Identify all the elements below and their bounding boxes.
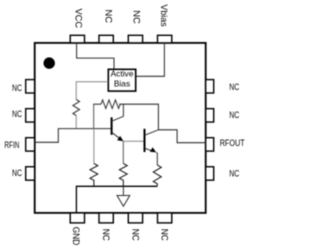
transistor Q1 emitter arrow	[117, 136, 123, 141]
svg-text:NC: NC	[229, 82, 239, 92]
svg-text:Bias: Bias	[114, 79, 130, 89]
transistor Q1 collector	[112, 104, 124, 121]
wire Q1 emitter down to R2 (gray)	[122, 141, 124, 163]
wire feedback left lead	[93, 103, 101, 105]
svg-text:NC: NC	[130, 229, 140, 241]
pin Vbias (top 4)	[158, 35, 172, 43]
pin NC (right 1)	[206, 80, 214, 93]
ground symbol stem	[122, 186, 124, 195]
pin NC (bottom 4)	[158, 213, 172, 223]
pin NC (right 2)	[206, 109, 214, 122]
svg-text:RFOUT: RFOUT	[220, 138, 245, 148]
wire Q1 emitter to Q2 base (gray)	[124, 140, 145, 142]
transistor Q2 emitter	[145, 148, 154, 151]
resistor R3 (Q2 emitter)	[153, 165, 161, 186]
wire base bleed (gray, base line down to R1)	[93, 129, 95, 164]
svg-text:Active: Active	[111, 68, 134, 78]
transistor Q1 emitter	[112, 132, 121, 139]
pin VCC (top 1)	[70, 35, 84, 43]
pin NC (bottom 2)	[99, 213, 113, 223]
pin GND (bottom 1)	[70, 213, 84, 223]
pin NC (left 4)	[26, 167, 35, 180]
ground symbol	[117, 196, 130, 207]
svg-text:NC: NC	[159, 229, 169, 241]
transistor Q2 collector	[145, 130, 159, 135]
resistor Rbias (vertical zigzag)	[73, 100, 80, 116]
pin RFIN (left 3)	[26, 138, 35, 151]
transistor Q2 emitter arrow	[150, 147, 156, 152]
wire Active Bias output (gray)	[76, 82, 108, 100]
wire ground bus	[76, 186, 157, 213]
wire Rbias to base line (gray)	[75, 116, 77, 129]
svg-text:NC: NC	[132, 10, 142, 24]
svg-text:NC: NC	[229, 169, 239, 179]
transistor Q1 base bar	[111, 117, 113, 135]
resistor R2 (Q1 emitter)	[119, 164, 127, 187]
op-amp / active bias box U1	[108, 69, 135, 91]
svg-text:NC: NC	[12, 83, 22, 93]
svg-text:RFIN: RFIN	[4, 140, 19, 150]
wire collector rail	[119, 104, 158, 130]
pin NC (left 2)	[26, 109, 35, 122]
pin NC (bottom 3)	[128, 213, 142, 223]
svg-text:NC: NC	[12, 109, 22, 119]
wire VCC to Active Bias	[77, 43, 114, 69]
wire RFOUT	[158, 130, 205, 143]
pin 1 marker dot	[44, 57, 55, 68]
svg-text:NC: NC	[103, 10, 113, 24]
svg-text:NC: NC	[101, 229, 111, 241]
pin NC (left 1)	[26, 80, 35, 93]
svg-text:Vbias: Vbias	[159, 4, 169, 27]
wire feedback left vertical	[93, 104, 95, 128]
svg-text:NC: NC	[229, 110, 239, 120]
package outline	[35, 43, 206, 213]
pin RFOUT (right 3)	[206, 138, 214, 151]
svg-text:VCC: VCC	[74, 9, 84, 29]
pin NC (top 3)	[128, 35, 142, 43]
wire Vbias to Active Bias	[136, 43, 165, 76]
resistor Rfb (feedback, horizontal zigzag)	[101, 100, 120, 109]
svg-text:NC: NC	[12, 168, 22, 178]
pin NC (right 4)	[206, 167, 214, 180]
transistor Q2 base bar	[144, 129, 146, 152]
wire Q2 emitter down to R3	[156, 152, 157, 165]
resistor R1 (base bleed)	[90, 164, 98, 187]
pin NC (top 2)	[99, 35, 113, 43]
svg-text:GND: GND	[71, 227, 81, 246]
wire RFIN to base line	[35, 129, 111, 143]
